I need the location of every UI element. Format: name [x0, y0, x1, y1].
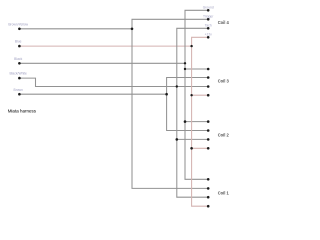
- node Coil 2 pin 4: [207, 147, 210, 150]
- node junction +12v bus Coil3 branch: [190, 94, 192, 96]
- node Coil 1 pin 4: [207, 205, 210, 208]
- node Coil 3 pin 1: [207, 68, 210, 71]
- wire Blue (+12v feed): [19, 45, 191, 47]
- node junction tach bus Coil2 branch: [176, 138, 179, 141]
- node Black terminal: [18, 62, 21, 65]
- node Coil 4 pin 1: [207, 9, 210, 12]
- node Coil 1 pin 2: [207, 187, 210, 190]
- svg-text:Trigger: Trigger: [203, 15, 214, 19]
- wire +12v pink bus: [192, 37, 209, 206]
- wire ground bus branch Coil3 pin1: [185, 68, 208, 70]
- node Brown/Yellow terminal: [18, 28, 21, 31]
- svg-text:+12v: +12v: [205, 33, 213, 37]
- node Blue terminal: [18, 45, 21, 48]
- node junction Black x ground bus: [184, 62, 186, 64]
- node junction +12v bus Coil2 branch: [190, 147, 193, 150]
- wire trigger bus A (Brown/Yellow to Coil4+Coil1 trigger): [132, 19, 208, 188]
- wire Black (ground feed): [19, 62, 185, 64]
- wire Black/White (tach line): [19, 78, 208, 86]
- wire brown bus (Coil3+Coil2 trigger): [167, 78, 209, 131]
- node Coil 2 pin 3: [207, 138, 210, 141]
- node junction ground bus Coil2 branch: [184, 120, 187, 123]
- svg-text:Black: Black: [14, 57, 22, 61]
- wire tach bus: [177, 28, 208, 197]
- wire tach bus branch Coil2 pin3: [177, 138, 208, 140]
- svg-text:Coil 1: Coil 1: [218, 190, 230, 195]
- node junction Brown x brown bus: [165, 93, 168, 96]
- node Brown terminal: [18, 93, 21, 96]
- svg-text:Coil 3: Coil 3: [218, 79, 230, 84]
- node Coil 4 pin 2: [207, 18, 210, 21]
- wire +12v branch Coil3 pin4: [192, 94, 209, 96]
- node Coil 4 pin 3: [207, 27, 210, 30]
- node Coil 4 pin 4: [207, 36, 210, 39]
- svg-text:Miata harness: Miata harness: [8, 109, 37, 114]
- wire +12v branch Coil2 pin4: [192, 147, 209, 149]
- node junction tach bus x Black/White: [176, 85, 178, 87]
- svg-text:Brown/Yellow: Brown/Yellow: [8, 22, 28, 26]
- svg-text:Coil 2: Coil 2: [218, 133, 230, 138]
- node Black/White terminal: [18, 77, 21, 80]
- node junction Blue x +12v bus: [190, 45, 192, 47]
- wire Brown (trigger coils 3+2): [19, 93, 166, 95]
- node junction Brown/Yellow x trigger bus: [131, 28, 134, 31]
- node Coil 3 pin 2: [207, 76, 210, 79]
- svg-text:Brown: Brown: [14, 88, 24, 92]
- svg-text:Coil 4: Coil 4: [218, 20, 230, 25]
- wire Brown/Yellow: [19, 28, 132, 30]
- node Coil 1 pin 1: [207, 178, 210, 181]
- node Coil 1 pin 3: [207, 196, 210, 199]
- svg-text:Tach: Tach: [205, 24, 212, 28]
- svg-text:Black/White: Black/White: [9, 72, 27, 76]
- node Coil 3 pin 4: [207, 94, 210, 97]
- node Coil 3 pin 3: [207, 85, 210, 88]
- node Coil 2 pin 1: [207, 120, 210, 123]
- svg-text:Ground: Ground: [203, 6, 214, 10]
- wire ground bus branch Coil2 pin1: [185, 121, 208, 123]
- node junction ground bus Coil3 branch: [184, 68, 186, 70]
- svg-text:Blue: Blue: [15, 40, 22, 44]
- node Coil 2 pin 2: [207, 129, 210, 132]
- wire ground bus: [185, 10, 208, 179]
